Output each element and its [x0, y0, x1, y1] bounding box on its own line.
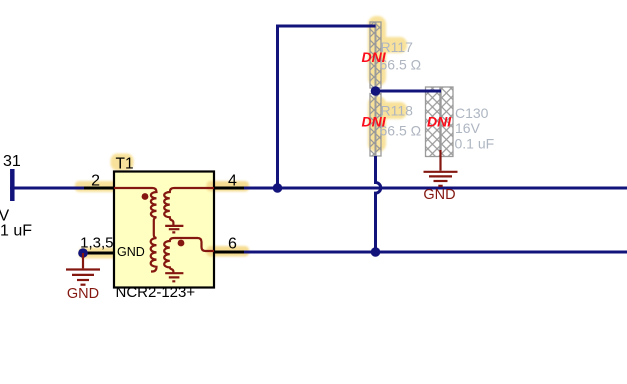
- wire pin 4 to right edge: [244, 187, 627, 190]
- highlight band pin 2: [75, 181, 122, 192]
- T1 primary polarity dot: [142, 193, 149, 200]
- pin 4: [214, 187, 244, 190]
- wire R117 to C130: [376, 90, 442, 93]
- junction R117-R118: [371, 86, 381, 96]
- ground symbol at pin 1,3,5: [66, 253, 100, 285]
- wire vertical branch up: [278, 26, 376, 188]
- svg-text:0.1 uF: 0.1 uF: [455, 136, 495, 152]
- highlight band T1 label: [111, 154, 134, 171]
- highlight band pin 6: [207, 246, 250, 257]
- transformer T1 border: [114, 172, 214, 288]
- svg-text:66.5 Ω: 66.5 Ω: [380, 57, 422, 73]
- svg-text:DNI: DNI: [362, 114, 387, 130]
- ground symbol under C130: [424, 150, 458, 186]
- highlight band resistor R117: [368, 16, 386, 86]
- svg-text:DNI: DNI: [427, 114, 452, 130]
- svg-text:GND: GND: [423, 187, 455, 203]
- T1 internal ground upper: [165, 226, 183, 233]
- svg-text:GND: GND: [117, 245, 145, 259]
- pin 2: [84, 187, 114, 190]
- resistor R118 body (DNI hatched): [370, 94, 381, 157]
- svg-text:1,3,5: 1,3,5: [80, 235, 113, 252]
- T1 secondary polarity dot: [178, 240, 185, 247]
- pin 1,3,5: [84, 252, 114, 255]
- wire pin 6 to right edge: [244, 251, 627, 254]
- junction R118-pin6 wire: [371, 247, 381, 257]
- svg-text:DNI: DNI: [362, 49, 387, 65]
- T1 secondary winding lower (right): [164, 238, 214, 273]
- capacitor C130 body (DNI hatched): [426, 87, 454, 157]
- svg-text:T1: T1: [116, 156, 134, 173]
- resistor R117 body (DNI hatched): [370, 22, 381, 88]
- svg-text:66.5 Ω: 66.5 Ω: [380, 123, 422, 139]
- transformer T1 body: [114, 172, 214, 288]
- T1 internal ground lower: [165, 273, 183, 281]
- svg-text:1 uF: 1 uF: [0, 223, 32, 240]
- svg-text:C130: C130: [455, 105, 489, 121]
- junction pin 1,3,5: [78, 248, 88, 258]
- highlight band R118 designator: [376, 102, 407, 119]
- highlight band R117 designator: [376, 37, 407, 53]
- highlight band pin 1,3,5: [79, 248, 122, 259]
- junction pin4 branch: [273, 183, 283, 193]
- svg-text:4: 4: [228, 173, 237, 190]
- svg-text:NCR2-123+: NCR2-123+: [116, 284, 196, 301]
- T1 primary winding (left): [114, 188, 157, 272]
- T1 secondary winding upper (right): [164, 188, 214, 225]
- wire R118 down with hop over horizontal wire: [376, 156, 381, 252]
- highlight band pin 4: [207, 181, 250, 192]
- wire stub at left edge: [10, 169, 15, 201]
- svg-text:2: 2: [91, 173, 100, 190]
- svg-text:GND: GND: [67, 286, 99, 302]
- wire left to pin 2: [10, 187, 84, 190]
- svg-text:6: 6: [228, 236, 237, 253]
- svg-text:31: 31: [3, 153, 21, 170]
- pin 6: [214, 251, 244, 254]
- svg-text:16V: 16V: [455, 120, 481, 136]
- highlight band resistor R118: [368, 96, 386, 152]
